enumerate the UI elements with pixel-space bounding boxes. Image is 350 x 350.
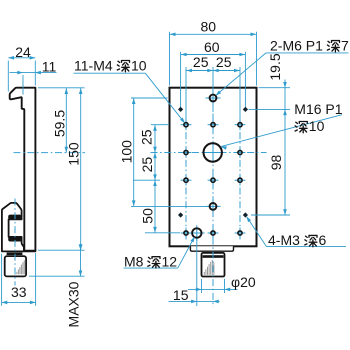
hole M6 upper — [206, 97, 221, 99]
hole M6 lower — [206, 205, 221, 207]
svg-text:φ20: φ20 — [231, 274, 256, 290]
dimension 60 line with arrows — [181, 54, 246, 56]
svg-text:19.5: 19.5 — [267, 53, 283, 80]
svg-text:98: 98 — [268, 155, 284, 171]
dimension 19.5 line with outside arrows — [284, 80, 286, 116]
chain arrows — [153, 125, 157, 131]
side view main plate with top hook (black outline) — [10, 88, 36, 251]
svg-text:59.5: 59.5 — [52, 110, 68, 137]
dimension 33 line with arrows — [2, 301, 36, 303]
side view bottom extension line — [38, 249, 85, 251]
left extension line row3 — [133, 179, 160, 181]
left extension line row1 — [151, 124, 169, 126]
dimension 60 extension lines — [180, 52, 182, 107]
front view knob knurl hatch — [204, 260, 214, 275]
svg-text:60: 60 — [204, 39, 220, 55]
side view carriage lower clamp strip (filled) — [8, 237, 22, 242]
left extension line from upper M6 row — [131, 97, 168, 99]
svg-text:12: 12 — [162, 253, 178, 269]
svg-text:2-M6 P1: 2-M6 P1 — [270, 37, 323, 53]
dimension 11 line with outside arrows — [10, 72, 57, 74]
dimension 80 line with arrows — [170, 33, 257, 35]
svg-text:11: 11 — [42, 59, 57, 75]
dimension 25 25 line with arrows — [186, 70, 240, 72]
dimension 11 extension line — [22, 75, 24, 95]
M3 hole bottom-right — [243, 212, 248, 217]
M3 hole top-left — [178, 107, 183, 112]
dimension 98 line with arrows — [284, 109, 286, 215]
svg-text:6: 6 — [319, 232, 327, 248]
front view left column centerline — [185, 119, 187, 240]
M4 holes row3 — [181, 179, 192, 181]
svg-text:100: 100 — [118, 140, 134, 164]
side view carriage upper clamp strip (filled) — [8, 215, 22, 220]
hole M8 — [189, 232, 205, 234]
label M16 leader — [221, 115, 342, 147]
dimension 80 extension lines — [169, 32, 171, 86]
right extension line from lower M3 row — [251, 214, 290, 216]
svg-text:MAX30: MAX30 — [65, 281, 81, 327]
front view plate (black outline) — [170, 88, 257, 247]
svg-text:11-M4: 11-M4 — [74, 57, 113, 73]
M4 holes row1 — [181, 124, 192, 126]
M4 holes bottom row — [181, 232, 192, 234]
svg-text:24: 24 — [15, 44, 31, 60]
svg-text:4-M3: 4-M3 — [268, 232, 300, 248]
M3 hole bottom-left — [178, 212, 183, 217]
side view knob knurl hatch — [17, 260, 24, 274]
dimension 100 line with arrows — [133, 98, 135, 206]
svg-text:25: 25 — [139, 157, 155, 173]
label 11-M4 leader — [74, 72, 146, 74]
side view top extension line — [38, 87, 85, 89]
front view knob body — [202, 253, 225, 277]
M3 hole top-right — [243, 107, 248, 112]
label M16 kanji depth 10 line2 — [295, 122, 307, 133]
knob bottom extension line — [29, 275, 85, 277]
label 4-M3 leader — [247, 217, 267, 247]
svg-text:25: 25 — [216, 54, 232, 70]
label 2-M6 kanji depth 7 — [327, 41, 339, 52]
svg-text:25: 25 — [193, 54, 209, 70]
front view right column centerline — [239, 119, 241, 240]
front view vertical centerline — [212, 114, 214, 308]
M4 holes middle row — [181, 152, 192, 154]
front view bottom flange — [190, 246, 233, 251]
side view mid dash-dot reference line — [14, 152, 86, 154]
label 2-M6 leader — [266, 52, 349, 54]
side view knob body (black outline) — [5, 256, 26, 276]
svg-text:80: 80 — [201, 19, 217, 35]
svg-text:25: 25 — [138, 129, 154, 145]
svg-text:M8: M8 — [124, 253, 144, 269]
svg-text:M16 P1: M16 P1 — [294, 101, 342, 117]
hole M16 center — [203, 152, 224, 154]
label M8 leader — [124, 267, 178, 269]
dimension 15 line with outside arrows — [169, 300, 220, 302]
M8 extension line down — [196, 239, 198, 306]
front view knob top band — [203, 255, 224, 258]
svg-text:7: 7 — [341, 37, 349, 53]
knob edge extension lines — [201, 279, 203, 293]
side view carriage C-bracket (black outline) — [2, 203, 36, 252]
dimension 150 line with arrows — [80, 88, 82, 250]
dimension 33 extension lines — [1, 254, 3, 306]
label 11-M4 kanji depth 10 — [117, 61, 129, 72]
svg-text:33: 33 — [11, 284, 27, 300]
dimension 59.5 line with arrows — [65, 88, 67, 153]
left extension line row4 — [145, 232, 180, 234]
side view knob vertical centerline — [14, 199, 16, 286]
dimension 24 line with arrows — [8, 57, 35, 59]
dimension phi20 line with outside arrows — [188, 288, 238, 290]
left extension line from lower M6 row — [131, 205, 209, 207]
svg-text:10: 10 — [131, 57, 147, 73]
dimension 24 extension lines — [7, 61, 9, 92]
label 4-M3 kanji depth 6 — [305, 235, 317, 246]
svg-text:150: 150 — [65, 142, 81, 166]
svg-text:15: 15 — [173, 287, 189, 303]
front view M16 horizontal centerline — [151, 152, 267, 154]
dimension 25-25 extension lines — [185, 67, 187, 122]
dimension MAX30 line with arrows — [80, 244, 82, 277]
right extension line from upper M3 row — [249, 108, 291, 110]
svg-text:50: 50 — [139, 208, 155, 224]
dimension 25-25-50 chain line — [154, 125, 156, 233]
side view knob neck (filled) — [7, 253, 23, 256]
svg-text:10: 10 — [309, 118, 325, 134]
right extension line from plate top corner — [259, 87, 291, 89]
label M8 kanji depth 12 — [148, 257, 160, 268]
